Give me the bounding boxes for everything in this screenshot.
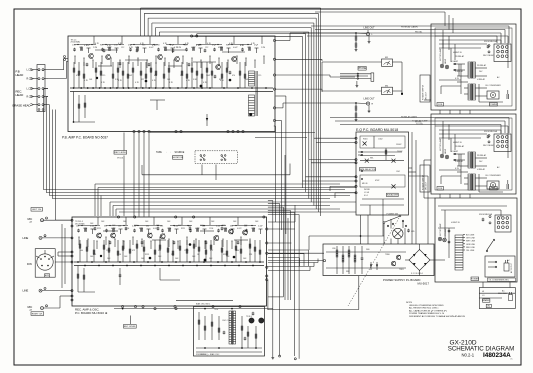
svg-text:R82: R82 [346, 271, 349, 273]
PB mid tick 1 [75, 56, 76, 65]
PB detail cluster 8 [121, 36, 124, 49]
relay block 2 relay text right [477, 144, 494, 171]
capacitor C205 REC amp [173, 241, 176, 245]
relay block 1 outline [431, 24, 516, 110]
wire top bus 6 horizontal [159, 31, 308, 33]
head strip extra pins [38, 109, 44, 111]
capacitor C109 PB amp [229, 71, 232, 75]
EQ board left pin 1 [355, 137, 357, 139]
value label PB 14 [229, 43, 234, 45]
svg-text:E.Q P.C. BOARD MU-5018: E.Q P.C. BOARD MU-5018 [356, 128, 398, 132]
wire EQ pin feed 8 [335, 193, 356, 198]
REC rail junction dot 23 [231, 261, 233, 263]
resistor R206 REC amp [122, 240, 124, 262]
resistor R222 REC amp [235, 240, 237, 262]
REC rail junction dot 22 [224, 265, 226, 267]
REC value row2 5 [132, 250, 136, 252]
value label REC 3 [112, 225, 116, 227]
relay block 1 lamp L1 [440, 64, 444, 68]
resistor R106 PB amp [117, 62, 119, 88]
REC mid tick 1 [79, 237, 80, 246]
PB value row2 9 [180, 75, 183, 77]
REC feed rail segment 4 [170, 225, 192, 226]
label TO RELAY [412, 120, 428, 126]
PB board bottom pin 1 [133, 130, 135, 132]
DIN socket box [35, 249, 55, 278]
capacitor C202 REC amp [125, 227, 128, 231]
REC rail junction dot 12 [154, 265, 156, 267]
relay block 2 relay text 3 [455, 160, 464, 163]
DIN socket circle [37, 254, 53, 270]
resistor R101 PB amp [78, 62, 80, 88]
relay block 1 wires around transformer [457, 64, 487, 96]
OSC rail [196, 347, 262, 352]
relay block 2 connector feed pins [488, 135, 490, 143]
REC rail junction dot 14 [168, 265, 170, 267]
REC detail cluster 5 [104, 226, 108, 233]
svg-text:PB OSL: PB OSL [415, 122, 422, 124]
value label PB 21 [152, 80, 157, 82]
wire switch feed left [268, 260, 323, 262]
PB feed rail segment 5 [196, 44, 222, 45]
wire REC edge down [267, 280, 269, 310]
block3 lamp 2 [443, 238, 447, 242]
svg-text:FROM MECHA: FROM MECHA [484, 130, 498, 133]
value label REC 2 [101, 221, 105, 223]
relay block 1 cap near mecha [487, 45, 490, 49]
PB value row2 13 [232, 75, 235, 77]
value label PB 8 [163, 43, 168, 45]
svg-text:LINE OUT: LINE OUT [364, 27, 376, 30]
REC board right pin 4 [266, 266, 268, 268]
REC amp board outline [72, 217, 267, 306]
PB rail junction dot 16 [169, 87, 171, 89]
relay block 1 connector block [494, 44, 511, 62]
PB board supply rail upper [70, 87, 273, 89]
value label PB 15 [240, 45, 245, 47]
svg-text:H MUT-B: H MUT-B [451, 222, 460, 224]
PB mid tick 6 [120, 60, 121, 69]
wire mid bus 9 [116, 209, 340, 216]
PB mid tick 2 [84, 58, 85, 67]
label EQUALIZER [387, 193, 399, 196]
title NO.2-1 [462, 352, 475, 357]
svg-text:PHONE: PHONE [358, 68, 367, 70]
wire rec level drop [123, 133, 125, 217]
block2 to block3 stubs [440, 194, 470, 198]
svg-text:GRY LINE: GRY LINE [466, 238, 475, 240]
PB inter-stage wire seg 2 [125, 59, 148, 61]
PB board top pin 1 [191, 35, 193, 37]
PB board supply rail lower [70, 91, 273, 93]
REC detail cluster 19 [202, 226, 207, 235]
relay block 2 label POWER [489, 187, 497, 191]
REC value row2 3 [106, 250, 110, 252]
PB detail cluster 24 [233, 36, 238, 49]
wire corner bundle C 1 [268, 250, 309, 266]
svg-text:COIL: COIL [438, 188, 444, 190]
value label PB 13 [218, 47, 223, 49]
line out R jack [366, 102, 373, 106]
wire top bus 3 left drop [147, 18, 149, 36]
PL resistor bank 1 [336, 246, 338, 274]
label EQ PC BOARD MU-5018 [356, 128, 398, 132]
value label REC 22 [175, 258, 179, 260]
svg-text:RIGHT CH.: RIGHT CH. [32, 313, 44, 315]
PB detail cluster 13 [156, 45, 160, 52]
resistor R103 PB amp [95, 62, 97, 88]
relay block 2 label COIL [437, 187, 444, 191]
wire top bus 6 right drop [308, 32, 310, 199]
resistor R111 PB amp [145, 62, 147, 88]
REC feed rail segment 5 [200, 225, 226, 226]
resistor R204 REC amp [108, 240, 110, 262]
wire to relay 3 [303, 33, 501, 43]
REC rail junction dot 20 [210, 265, 212, 267]
block3 wire label GRY LINE [463, 238, 475, 240]
wire corner bundle B 1 [268, 201, 273, 358]
OSC top pins [212, 305, 241, 307]
REC board right pin 1 [266, 228, 268, 230]
block3 outlet contacts [488, 261, 497, 268]
svg-text:TR 8-9: TR 8-9 [246, 316, 252, 318]
PB rail junction dot 12 [142, 87, 144, 89]
line R jack [23, 287, 47, 292]
REC mid tick 13 [187, 237, 188, 246]
EQ board left pin 2 [355, 141, 357, 143]
wire PB right pin feeds [274, 33, 355, 234]
OSC board outline [194, 307, 265, 357]
resistor R115 PB amp [168, 62, 170, 88]
wire top bus 2 right drop [317, 13, 319, 212]
REC detail cluster 27 [258, 226, 264, 235]
note text block [406, 302, 466, 318]
resistor R91 [355, 40, 357, 47]
PB mid tick 3 [93, 60, 94, 69]
value label REC 5 [134, 225, 138, 227]
resistor R203 REC amp [103, 240, 105, 262]
wire head drop 1 [44, 89, 96, 190]
EQ board left pin 3 [355, 159, 357, 161]
PL resistor bank 2 [342, 246, 344, 274]
svg-text:D80: D80 [366, 249, 369, 251]
relay block 1 relay contact wires [453, 63, 465, 76]
wire pb head R to board [48, 62, 68, 79]
relay block 2 outline [431, 114, 516, 194]
value label PB 17 [84, 80, 89, 82]
value label REC 24 [209, 258, 213, 260]
resistor R116 PB amp [181, 62, 183, 88]
wire top bus 1 left drop [140, 8, 142, 36]
value label REC 21 [158, 256, 162, 258]
svg-text:PB RELAY: PB RELAY [477, 64, 487, 67]
block3 AC label [507, 259, 510, 262]
capacitor C108 PB amp [214, 75, 217, 79]
ground jack L [368, 36, 371, 44]
svg-text:4 LO: 4 LO [364, 195, 369, 197]
block3 wire label WHT LINE [463, 241, 476, 243]
REC interstage wire seg 2 [152, 239, 166, 241]
svg-text:HEAD: HEAD [16, 93, 24, 97]
resistor R105 PB amp [112, 62, 114, 88]
block3 label H MUT [451, 222, 460, 224]
wire right of PB verticals [285, 155, 288, 300]
resistor R125 PB amp [239, 62, 241, 88]
wire top bus 4 left drop [151, 23, 153, 36]
PB mid tick 7 [129, 56, 130, 65]
EQ board outline [356, 132, 409, 215]
wire mid bus 2 [98, 188, 356, 217]
svg-text:2.2M: 2.2M [93, 47, 97, 49]
PB board bottom pin 8 [232, 130, 234, 132]
PB board lower-left verticals [74, 92, 86, 123]
svg-text:560: 560 [80, 250, 83, 252]
value label PB 18 [101, 82, 106, 84]
svg-text:M: M [492, 93, 494, 97]
resistor R209 REC amp [143, 240, 145, 262]
REC detail cluster 3 [90, 226, 96, 235]
EQ board left pin 8 [355, 192, 357, 194]
PB board bottom pin 2 [138, 130, 140, 132]
PB rail junction dot 18 [185, 87, 187, 89]
wires right vertical bundle [445, 12, 453, 33]
PB board bottom pin 5 [175, 130, 177, 132]
PL left pin [323, 260, 325, 262]
svg-text:DIFFERENT ACCORDING TO AREA SH: DIFFERENT ACCORDING TO AREA SHOWN AT ABO… [409, 315, 466, 318]
title SCHEMATIC DIAGRAM [448, 346, 515, 353]
PL internal rail [326, 252, 406, 268]
wire mid bus 3 [95, 189, 345, 191]
PB board right pin 2 [273, 58, 275, 60]
PB board right pin 6 [273, 119, 275, 121]
PB detail cluster 16 [177, 36, 181, 49]
OSC resistors [198, 312, 257, 348]
wire top bus 7 [197, 34, 306, 192]
value label PB 10 [185, 43, 190, 45]
value label REC 16 [255, 221, 259, 223]
wires into block2 [330, 118, 509, 134]
wire top bus 3 right drop [315, 18, 317, 209]
OSC caps [223, 312, 255, 341]
relay block 2 transformer T upper winding [468, 152, 475, 168]
REC detail cluster 21 [216, 226, 222, 233]
label ERASE HEAD [13, 103, 31, 107]
REC mid tick 8 [142, 239, 143, 248]
value label PB 7 [152, 45, 157, 47]
svg-text:WHT LINE: WHT LINE [466, 241, 476, 243]
REC interstage wire seg 3 [200, 230, 214, 232]
wire corner bundle D 2 [268, 263, 314, 267]
REC rail junction dot 5 [105, 261, 107, 263]
svg-text:m: m [511, 359, 513, 361]
PB inter-stage wire seg 6 [98, 65, 112, 67]
PB board bottom pin 6 [180, 130, 182, 132]
transistor Q3 PB amp [158, 54, 163, 59]
svg-text:DIN: DIN [27, 262, 32, 266]
svg-text:OIL CONDENSER: OIL CONDENSER [485, 85, 501, 87]
PB board right pin 4 [273, 88, 275, 90]
PB value row2 2 [89, 79, 93, 81]
wire corner bundle B 6 [268, 215, 299, 359]
EQ trimmer VR3 [392, 159, 396, 163]
PB rail junction dot 20 [201, 87, 203, 89]
PB detail cluster 2 [79, 47, 82, 51]
label POWER SUPPLY PL BOARD [383, 278, 420, 282]
REC board bottom pins [122, 305, 177, 307]
power switch linkage dashed [348, 218, 399, 306]
capacitor C105 PB amp [172, 49, 175, 53]
REC mid tick 3 [97, 241, 98, 250]
relay block 1 connector feed pins [488, 45, 490, 53]
wire head drop 4 [52, 110, 104, 199]
PB detail cluster 5 [100, 45, 104, 52]
value label PB 12 [207, 43, 212, 45]
PB mid tick 5 [111, 58, 112, 67]
wire block2 inner corner 1 [442, 121, 444, 138]
REC rail junction dot 1 [77, 261, 79, 263]
REC value row2 13 [236, 250, 239, 252]
relay block 1 transformer T upper winding [468, 62, 475, 78]
relay block 2 inner box [435, 118, 512, 190]
wire top bus 4 horizontal [152, 22, 314, 24]
REC board right pin 2 [266, 242, 268, 244]
PB electrolytic blob 2 [96, 77, 98, 79]
svg-text:BIAS OSC 85KC: BIAS OSC 85KC [196, 303, 211, 306]
REC detail cluster 15 [174, 226, 180, 235]
voltage table box [479, 288, 515, 309]
capacitor C209 REC amp [237, 241, 240, 245]
label P.B HEAD [16, 70, 24, 77]
REC board supply rail upper [74, 261, 264, 263]
label PC BOARD MU-5016 [75, 311, 108, 315]
value label REC 15 [244, 225, 248, 227]
wire block3 bottom stub [483, 282, 510, 288]
REC lower left verticals [77, 266, 95, 293]
jack wires L [42, 220, 72, 262]
PB mid tick 14 [192, 58, 193, 67]
PB board right pin 1 [273, 39, 275, 41]
ground phone [356, 81, 359, 87]
block3 small contacts [448, 228, 450, 258]
OSC smudges [196, 303, 252, 357]
PB mid tick 8 [138, 58, 139, 67]
REC value row2 12 [223, 254, 227, 256]
PL smudges [332, 248, 404, 273]
PB rail junction dot 23 [237, 87, 239, 89]
value label REC 6 [145, 221, 149, 223]
svg-text:2SC458(B): 2SC458(B) [71, 42, 81, 44]
label REC LEVEL lower [124, 325, 137, 329]
ground corner B1 [271, 358, 274, 360]
svg-text:LAMP: LAMP [444, 58, 447, 64]
value label PB 22 [169, 82, 174, 84]
relay block 2 oil condenser label [485, 175, 501, 177]
REC detail cluster 2 [83, 228, 87, 232]
capacitor C204 REC amp [157, 227, 160, 231]
resistor R218 REC amp [205, 240, 207, 262]
OSC transformer winding R [233, 311, 235, 344]
svg-text:POWER: POWER [489, 188, 497, 190]
svg-text:LEFT CH.: LEFT CH. [32, 209, 42, 211]
power block 3 outline [435, 198, 517, 282]
PB mid tick 15 [201, 60, 202, 69]
wire selector horizontal [309, 235, 384, 250]
resistor R217 REC amp [198, 240, 200, 262]
wire EQ to PL [361, 215, 384, 244]
value label REC 18 [107, 258, 111, 260]
PB detail cluster 28 [261, 36, 265, 49]
resistor R123 PB amp [221, 62, 223, 88]
REC feed rail segment 1 [78, 225, 100, 226]
block3 wire label GRN LINE [463, 244, 476, 246]
PB board bottom pin 4 [148, 130, 150, 132]
wire EQ right verticals [409, 132, 429, 244]
value label PB 11 [196, 45, 201, 47]
bridge rectifier diamond [409, 250, 430, 271]
svg-text:HEAD: HEAD [16, 73, 24, 77]
block3 label FROM MECHA [479, 213, 493, 216]
svg-text:REC RELAY: REC RELAY [483, 54, 494, 57]
svg-text:EQUALIZER: EQUALIZER [387, 194, 399, 197]
ground jack R [368, 105, 371, 113]
power switch text [387, 214, 398, 216]
PB feed rail segment 1 [74, 44, 96, 45]
bridge wires [405, 244, 434, 276]
PL cap 1 [361, 246, 364, 274]
wire block2 to PL [424, 160, 445, 260]
bridge diode 2 [424, 254, 427, 257]
voltage table rows [479, 291, 515, 302]
svg-text:SEL: SEL [370, 158, 374, 160]
REC rail junction dot 21 [217, 261, 219, 263]
wire EQ pin feed 7 [330, 186, 356, 191]
wire mid horizontals to EQ [268, 229, 324, 253]
block3 rec lamp text [444, 228, 447, 238]
wire top bus 3 horizontal [148, 17, 316, 19]
value label PB 16 [251, 43, 256, 45]
relay block 1 relay text 2 [455, 55, 465, 58]
label LINE OUT upper [364, 27, 376, 30]
REC detail cluster 6 [111, 228, 116, 232]
svg-text:C204: C204 [209, 228, 213, 230]
rec level wire [131, 308, 144, 324]
PB mid tick 19 [237, 56, 238, 65]
relay block 2 lamp vertical text 2 [444, 148, 447, 154]
value label REC 26 [243, 258, 247, 260]
REC detail cluster 25 [244, 226, 248, 233]
wire to relay 4 [307, 36, 497, 43]
bridge diode 4 [424, 263, 427, 266]
block3 cap [482, 218, 485, 222]
resistor R93 [355, 110, 357, 117]
value label REC 20 [141, 258, 145, 260]
relay block 1 lamp L2 [445, 65, 449, 69]
value label REC 10 [189, 221, 193, 223]
transistor Q5 PB amp [216, 64, 221, 69]
pilot lamp cap [407, 229, 414, 233]
title 1480234A [483, 352, 511, 359]
resistor R214 REC amp [179, 240, 181, 262]
svg-text:MIC-B: MIC-B [362, 183, 368, 185]
EQ board left pin 4 [355, 162, 357, 164]
wire meters to left [322, 62, 382, 91]
wire to relay 2 [315, 30, 505, 44]
relay block 2 relay contact wires [453, 153, 465, 166]
PB detail cluster 21 [212, 45, 217, 52]
head connector pin pair row 3 [27, 88, 49, 91]
PB board bottom small wires [73, 121, 95, 123]
REC mid tick 19 [241, 237, 242, 246]
